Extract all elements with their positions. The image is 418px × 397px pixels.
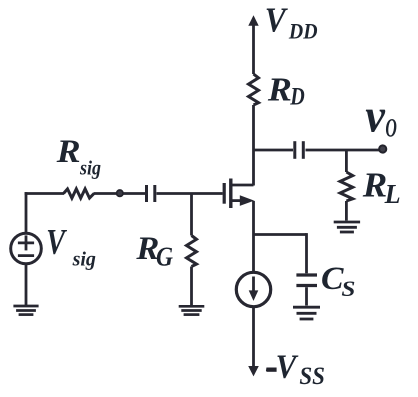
wire RL bottom: [345, 201, 348, 221]
transistor Q1 NMOS: [224, 179, 253, 209]
wire source vertical: [252, 201, 255, 272]
resistor RD: [249, 74, 259, 105]
wire drain output: [254, 149, 294, 152]
wire output to node: [306, 149, 382, 152]
resistor RG: [187, 236, 197, 267]
wire Vsig bottom: [25, 264, 28, 306]
power VDD arrowhead: [248, 15, 258, 26]
current source arrowhead: [249, 290, 259, 301]
transistor source arrowhead: [240, 195, 254, 206]
svg-text:SS: SS: [299, 363, 325, 390]
source Vsig: [11, 233, 42, 264]
resistor RL: [340, 172, 353, 201]
svg-text:sig: sig: [72, 248, 96, 270]
svg-text:G: G: [156, 241, 173, 271]
wire below current source: [252, 307, 255, 367]
wire Vsig top: [25, 192, 28, 233]
ground below CS: [293, 307, 320, 319]
wire RG bottom: [190, 267, 193, 306]
ground below RL: [334, 222, 360, 232]
ground below Vsig: [13, 306, 38, 315]
ground below RG: [179, 306, 205, 314]
svg-text:R: R: [362, 166, 388, 205]
wire RG top: [190, 194, 193, 236]
power arrow VDD: [252, 25, 255, 75]
svg-text:-V: -V: [265, 349, 298, 386]
wire input left: [25, 192, 64, 195]
wire RL top: [345, 150, 348, 172]
wire: [252, 105, 255, 186]
wire gate: [157, 192, 223, 195]
node vo output: [379, 145, 386, 152]
svg-text:V: V: [46, 222, 67, 262]
current source I: [236, 272, 270, 306]
svg-text:L: L: [384, 179, 401, 209]
wire bypass vertical: [305, 233, 308, 273]
capacitor CS: [296, 275, 317, 286]
svg-text:O: O: [385, 114, 397, 143]
svg-text:D: D: [289, 84, 304, 111]
svg-text:S: S: [341, 276, 355, 301]
node A input: [117, 190, 123, 196]
wire after Rsig: [94, 192, 146, 195]
capacitor CC1 input coupling: [147, 185, 155, 202]
svg-text:R: R: [267, 72, 292, 109]
svg-text:sig: sig: [79, 158, 101, 180]
resistor Rsig: [64, 189, 95, 198]
wire bypass horizontal: [254, 233, 307, 236]
svg-text:v: v: [365, 90, 385, 143]
wire CS to ground: [305, 287, 308, 305]
power -VSS arrowhead: [248, 366, 259, 376]
svg-text:DD: DD: [288, 19, 318, 44]
svg-text:V: V: [265, 1, 288, 40]
capacitor CC2 output coupling: [295, 141, 304, 159]
svg-text:R: R: [56, 134, 81, 170]
